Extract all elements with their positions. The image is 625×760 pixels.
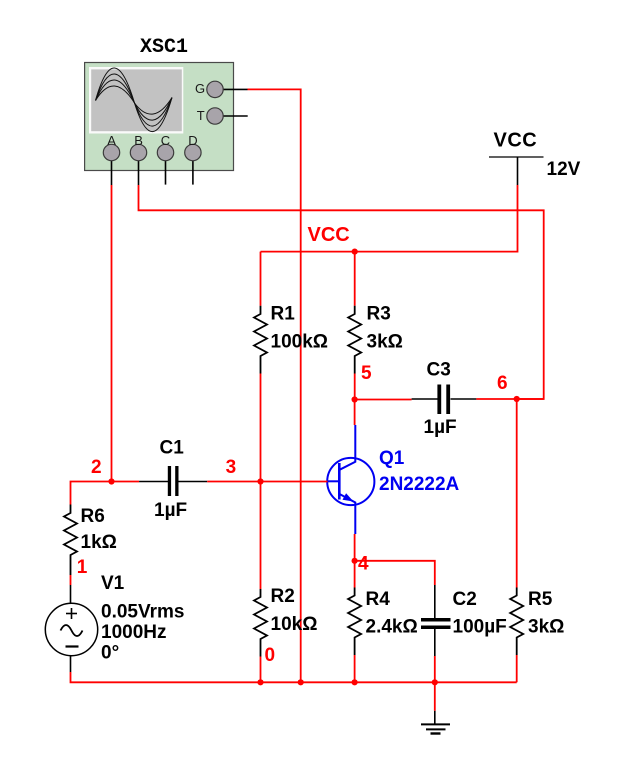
wire node5 to C3 bbox=[355, 399, 412, 401]
svg-text:T: T bbox=[197, 108, 205, 123]
wire C2 bottom to ground bbox=[434, 656, 436, 711]
terminal A bbox=[103, 133, 119, 161]
resistor R6 bbox=[64, 505, 77, 576]
capacitor C2 bbox=[421, 585, 451, 656]
svg-text:C2: C2 bbox=[453, 589, 477, 610]
svg-text:VCC: VCC bbox=[308, 224, 350, 246]
svg-text:0: 0 bbox=[265, 645, 276, 666]
wire ground rail bbox=[71, 672, 517, 682]
oscilloscope screen waveforms bbox=[96, 68, 173, 132]
resistor R1 bbox=[254, 306, 267, 374]
wire R1 bottom to node 3 bbox=[260, 374, 262, 482]
svg-text:0°: 0° bbox=[101, 642, 119, 663]
terminal G bbox=[195, 81, 223, 98]
wire R4 top bbox=[354, 561, 356, 588]
wire node4 to C2 bbox=[355, 561, 435, 585]
wire R5 bottom bbox=[516, 655, 518, 682]
svg-text:R3: R3 bbox=[367, 304, 391, 325]
svg-text:1µF: 1µF bbox=[424, 417, 457, 438]
terminal A stub bbox=[111, 153, 113, 186]
source V1 bbox=[45, 585, 97, 672]
svg-text:4: 4 bbox=[358, 554, 369, 575]
terminal B bbox=[130, 133, 146, 161]
wire VCC net bbox=[261, 185, 518, 252]
wire node3 to base bbox=[261, 481, 328, 483]
junction rail C2 bbox=[432, 679, 438, 685]
svg-text:V1: V1 bbox=[101, 573, 125, 594]
power VCC symbol bbox=[489, 130, 544, 186]
svg-text:R5: R5 bbox=[528, 589, 553, 610]
svg-text:6: 6 bbox=[497, 373, 508, 394]
svg-text:3kΩ: 3kΩ bbox=[367, 331, 403, 352]
svg-text:VCC: VCC bbox=[494, 130, 538, 152]
svg-text:R2: R2 bbox=[271, 586, 295, 607]
wire R4 bottom bbox=[354, 655, 356, 682]
terminal D stub bbox=[192, 153, 194, 185]
svg-text:C1: C1 bbox=[160, 438, 185, 459]
terminal G stub bbox=[215, 88, 248, 90]
junction rail R2 bbox=[257, 679, 263, 685]
svg-text:Q1: Q1 bbox=[379, 448, 405, 469]
wire R3 bottom to node 5 bbox=[354, 374, 356, 400]
wire C1 to node 3 bbox=[207, 481, 260, 483]
svg-text:10kΩ: 10kΩ bbox=[271, 614, 318, 635]
terminal T stub bbox=[215, 115, 248, 117]
svg-text:1µF: 1µF bbox=[154, 500, 187, 521]
svg-text:2: 2 bbox=[91, 457, 102, 478]
svg-text:XSC1: XSC1 bbox=[140, 36, 188, 59]
svg-text:2N2222A: 2N2222A bbox=[379, 474, 460, 495]
wire C3 to node 6 bbox=[476, 398, 543, 400]
svg-text:A: A bbox=[107, 133, 116, 148]
svg-text:R4: R4 bbox=[366, 589, 391, 610]
wire channel A bbox=[111, 185, 113, 482]
junction node 6 bbox=[514, 396, 520, 402]
svg-text:G: G bbox=[195, 81, 205, 96]
svg-text:R6: R6 bbox=[81, 506, 105, 527]
capacitor C3 bbox=[412, 385, 477, 415]
svg-text:B: B bbox=[134, 133, 143, 148]
oscilloscope XSC1 body bbox=[85, 63, 234, 171]
wire R2 bottom bbox=[260, 657, 262, 683]
svg-text:5: 5 bbox=[361, 363, 372, 384]
capacitor C1 bbox=[139, 466, 207, 496]
wire node2 input bbox=[71, 482, 140, 505]
resistor R2 bbox=[254, 589, 267, 657]
wire R2 top bbox=[260, 482, 262, 590]
transistor Q1 bbox=[327, 425, 374, 534]
wire R3 top bbox=[354, 252, 356, 306]
svg-text:100µF: 100µF bbox=[453, 616, 507, 637]
svg-text:C: C bbox=[161, 133, 170, 148]
wire R5 top bbox=[516, 399, 518, 588]
resistor R5 bbox=[510, 588, 523, 656]
resistor R3 bbox=[348, 306, 361, 374]
junction node 5 bbox=[352, 396, 358, 402]
wire emitter Q1 to node4 bbox=[354, 534, 356, 561]
resistor R4 bbox=[348, 588, 361, 656]
svg-text:100kΩ: 100kΩ bbox=[271, 331, 329, 352]
terminal D bbox=[185, 133, 201, 161]
svg-text:D: D bbox=[188, 133, 197, 148]
junction rail scope ground bbox=[298, 679, 304, 685]
svg-text:2.4kΩ: 2.4kΩ bbox=[366, 616, 418, 637]
svg-text:3: 3 bbox=[226, 457, 237, 478]
wire R6 to V1 bbox=[70, 575, 72, 585]
wire scope ground G bbox=[248, 89, 301, 682]
terminal B stub bbox=[138, 153, 140, 186]
svg-text:0.05Vrms: 0.05Vrms bbox=[101, 602, 184, 623]
wire collector node5 to Q1 bbox=[354, 400, 356, 426]
svg-text:3kΩ: 3kΩ bbox=[528, 616, 564, 637]
wire channel B bbox=[139, 185, 544, 399]
terminal C bbox=[157, 133, 173, 161]
junction rail R4 bbox=[352, 679, 358, 685]
svg-text:1kΩ: 1kΩ bbox=[81, 532, 117, 553]
wire R1 top bbox=[260, 252, 262, 306]
ground symbol bbox=[421, 711, 450, 734]
junction node 2 bbox=[108, 478, 114, 484]
svg-text:1000Hz: 1000Hz bbox=[101, 622, 167, 643]
svg-text:1: 1 bbox=[77, 557, 88, 578]
terminal C stub bbox=[165, 153, 167, 185]
svg-text:12V: 12V bbox=[547, 159, 581, 180]
terminal T bbox=[197, 108, 223, 124]
junction VCC/R3 bbox=[352, 249, 358, 255]
svg-text:R1: R1 bbox=[271, 304, 296, 325]
svg-text:C3: C3 bbox=[427, 360, 451, 381]
junction node 4 bbox=[352, 558, 358, 564]
junction node 3 bbox=[257, 478, 263, 484]
